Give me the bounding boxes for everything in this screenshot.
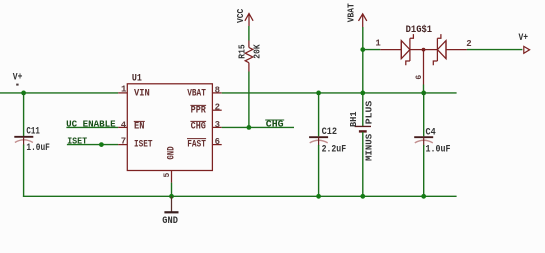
label C11 value 1.0uF (26, 143, 50, 154)
svg-text:V+: V+ (13, 73, 23, 84)
svg-text:CHG: CHG (266, 120, 284, 130)
pin number 6 (215, 137, 220, 147)
pin name CHG with overline (190, 121, 206, 132)
svg-text:1.0uF: 1.0uF (426, 145, 451, 156)
svg-text:PLUS: PLUS (364, 100, 374, 124)
label U1 (132, 73, 142, 84)
pin number 4 (121, 121, 127, 131)
svg-text:VBAT: VBAT (187, 89, 206, 100)
node V+ flag top-left (13, 73, 23, 86)
wire ground bottom rail (23, 195, 457, 197)
svg-text:FAST: FAST (187, 140, 206, 151)
wire diode pin 2 to V+ flag (467, 49, 523, 51)
label C12 value 2.2uF (322, 144, 347, 155)
battery BH1 (355, 126, 371, 131)
power VCC symbol arrow (245, 14, 253, 27)
label R15 rotated (238, 44, 248, 58)
wire ISET to pin (67, 144, 118, 146)
svg-text:GND: GND (162, 216, 178, 227)
svg-text:1: 1 (375, 39, 381, 49)
pin 8 VBAT stub (212, 92, 221, 94)
pin number 5 rotated (163, 173, 172, 178)
label BH1 rotated (349, 111, 359, 127)
label VBAT rotated (346, 3, 356, 23)
svg-text:2: 2 (466, 39, 471, 49)
wire C11 to ground rail (23, 145, 25, 197)
svg-text:20K: 20K (253, 44, 263, 59)
junction VBAT rail / battery (360, 91, 365, 96)
pin 6 FAST stub (212, 144, 221, 146)
net label CHG with overline (265, 120, 284, 130)
svg-text:ISET: ISET (134, 140, 153, 151)
svg-text:VIN: VIN (134, 89, 150, 100)
svg-text:EN: EN (134, 122, 145, 133)
wire battery to ground rail (362, 132, 364, 196)
wire VBAT junction to diode pin 1 (363, 49, 381, 51)
svg-text:BH1: BH1 (349, 111, 359, 127)
svg-text:1: 1 (121, 85, 127, 95)
wire diode common pin 6 drop (423, 50, 425, 85)
node V+ flag right (519, 33, 530, 53)
ground GND symbol (162, 196, 178, 227)
wire CHG row from pin3 (222, 126, 294, 128)
junction diode common cathode (422, 48, 426, 52)
svg-text:1.0uF: 1.0uF (26, 143, 50, 154)
diode D1G$1 left half (schottky) (380, 34, 423, 65)
resistor R15 (245, 41, 253, 72)
pin name GND rotated inside box (166, 146, 177, 159)
pin number 1 (diode) (375, 39, 381, 49)
pin number 2 (diode) (466, 39, 471, 49)
wire pin5 to ground rail (171, 183, 173, 197)
wire VBAT symbol down to battery (362, 27, 364, 126)
wire C12 to ground rail (318, 145, 320, 196)
pin 1 VIN stub (118, 92, 127, 94)
wire V+ input rail top-left (0, 92, 118, 94)
junction ground rail / pin5 (169, 194, 174, 199)
pin name FAST with overline (187, 139, 206, 151)
svg-text:C4: C4 (426, 127, 436, 138)
label PLUS rotated (364, 100, 374, 124)
junction ground rail / C4 (421, 194, 426, 199)
junction VBAT rail / C12 (316, 91, 321, 96)
wire stub right of junction (424, 92, 457, 94)
power VBAT symbol arrow (359, 14, 367, 27)
label 20K rotated (253, 44, 263, 59)
junction ground rail / battery (360, 194, 365, 199)
net label ISET (67, 137, 88, 147)
svg-text:V+: V+ (519, 33, 529, 44)
wire C12 drop (318, 93, 320, 136)
svg-text:VBAT: VBAT (346, 3, 356, 23)
label C4 value 1.0uF (426, 145, 451, 156)
wire VBAT rail from pin8 to right (222, 92, 424, 94)
svg-text:8: 8 (215, 86, 220, 96)
pin name ISET (134, 140, 153, 151)
pin 3 CHG stub (212, 126, 221, 128)
pin number 8 (215, 86, 220, 96)
wire UC_ENABLE to pin EN (66, 126, 118, 128)
label C4 name (426, 127, 436, 138)
pin number 6 rotated (diode) (415, 75, 424, 80)
svg-text:PPR: PPR (191, 105, 206, 116)
svg-text:GND: GND (166, 146, 177, 159)
op-amp U1 ic body (127, 84, 212, 171)
svg-text:6: 6 (215, 137, 220, 147)
net label UC_ENABLE (66, 120, 116, 130)
pin name VBAT (187, 89, 206, 100)
svg-text:4: 4 (121, 121, 127, 131)
pin 4 EN stub (118, 126, 127, 128)
svg-text:C12: C12 (322, 127, 338, 138)
wire from V+ rail down to C11 (23, 93, 25, 136)
junction V+ / C11 (21, 91, 26, 96)
diode D1G$1 right half (schottky) (424, 34, 467, 65)
pin name EN with overline (134, 121, 145, 132)
wire R15 down to CHG row (crosses VBAT rail) (248, 72, 250, 128)
pin number 7 (121, 137, 126, 147)
junction VBAT / diode branch (360, 47, 365, 52)
svg-text:VCC: VCC (236, 8, 246, 23)
label D1G$1 (406, 24, 433, 36)
pin name PPR with overline (190, 105, 206, 116)
svg-text:R15: R15 (238, 44, 248, 58)
pin 7 ISET stub (118, 144, 127, 146)
wire C4 to ground rail (423, 145, 425, 196)
label C11 name (26, 127, 40, 138)
wire C4 drop (423, 93, 425, 136)
pin 2 PPR stub (212, 109, 221, 111)
wire pin6 to VBAT rail junction (423, 85, 425, 94)
svg-text:C11: C11 (26, 127, 40, 138)
capacitor C12 (309, 137, 328, 146)
svg-text:MINUS: MINUS (364, 133, 374, 161)
junction ground rail / C12 (316, 194, 321, 199)
pin number 3 (215, 120, 220, 130)
svg-text:U1: U1 (132, 73, 142, 84)
svg-text:3: 3 (215, 120, 220, 130)
svg-text:5: 5 (163, 173, 172, 178)
label VCC rotated (236, 8, 246, 23)
svg-text:7: 7 (121, 137, 126, 147)
junction CHG wire / R15 (247, 125, 252, 130)
capacitor C4 (414, 137, 433, 146)
label MINUS rotated (364, 133, 374, 161)
pin name VIN (134, 89, 150, 100)
junction VBAT rail / diode / C4 (421, 91, 426, 96)
svg-text:2: 2 (215, 102, 220, 112)
pin number 1 (121, 85, 127, 95)
pin number 2 (215, 102, 220, 112)
svg-text:6: 6 (415, 75, 424, 80)
wire VCC to R15 (248, 26, 250, 41)
label C12 name (322, 127, 338, 138)
capacitor C11 (14, 137, 33, 146)
svg-text:D1G$1: D1G$1 (406, 24, 433, 36)
junction on ISET wire (99, 142, 104, 147)
pin 5 GND stub bottom (171, 171, 173, 183)
svg-text:2.2uF: 2.2uF (322, 144, 347, 155)
svg-text:CHG: CHG (191, 122, 206, 133)
